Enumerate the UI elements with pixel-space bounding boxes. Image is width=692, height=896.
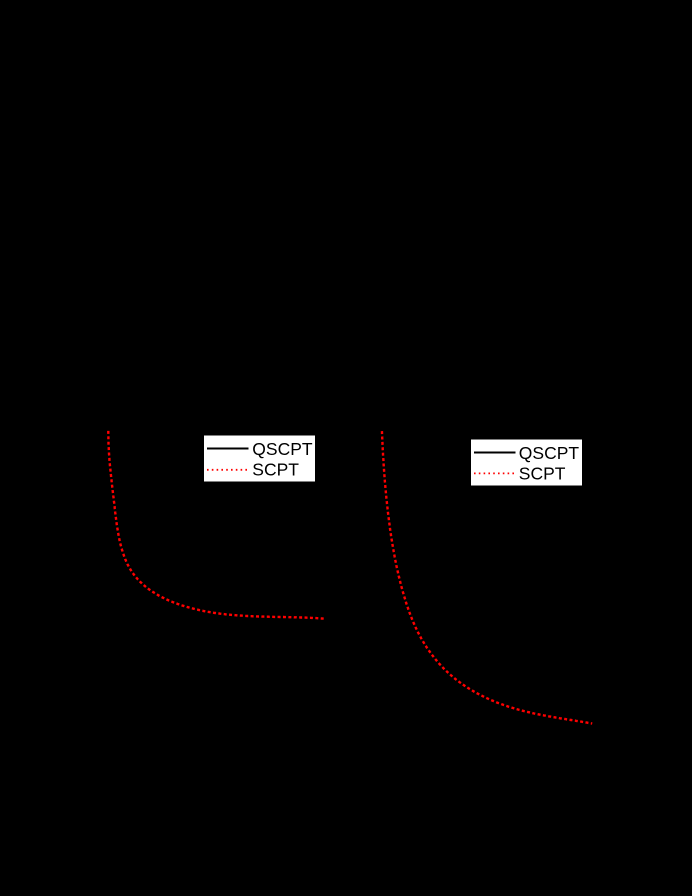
SCPT curve right panel (red dotted) [382, 431, 592, 723]
legend box right panel [471, 439, 583, 486]
SCPT curve left panel (red dotted) [108, 431, 325, 619]
svg-text:SCPT: SCPT [252, 460, 299, 480]
svg-text:QSCPT: QSCPT [252, 439, 313, 459]
svg-text:QSCPT: QSCPT [519, 443, 580, 463]
legend QSCPT line sample right [474, 452, 516, 454]
legend SCPT dotted sample left [207, 469, 249, 471]
legend SCPT dotted sample right [474, 472, 516, 474]
legend box left panel [204, 435, 316, 482]
svg-text:SCPT: SCPT [519, 464, 566, 484]
legend QSCPT line sample left [207, 448, 249, 450]
